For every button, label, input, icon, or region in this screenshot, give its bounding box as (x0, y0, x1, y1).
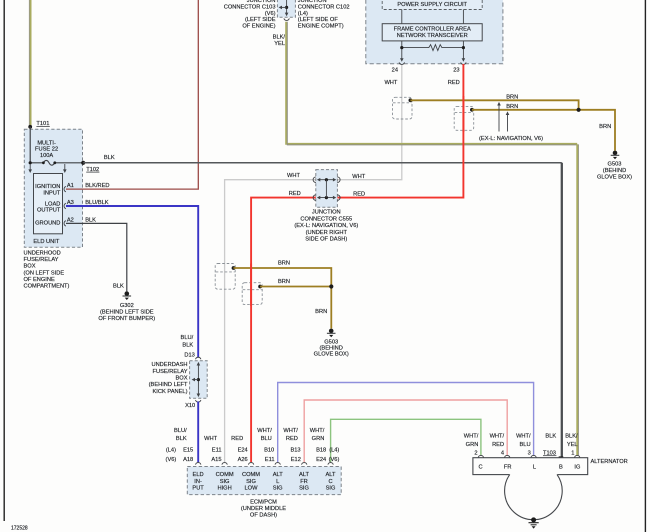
svg-text:BLK: BLK (85, 217, 96, 223)
svg-text:BOX: BOX (24, 264, 36, 270)
svg-text:B13: B13 (290, 447, 300, 453)
svg-text:(V6): (V6) (329, 457, 340, 463)
power supply circuit box (382, 0, 482, 10)
C555 WHT row arrows and node (319, 179, 335, 181)
svg-text:(BEHIND: (BEHIND (603, 168, 626, 174)
svg-text:FR: FR (300, 479, 308, 485)
svg-text:23: 23 (453, 67, 459, 73)
wire BLK from A2 to G302 (66, 223, 127, 291)
svg-text:LOW: LOW (245, 486, 259, 492)
svg-text:(EX-L: NAVIGATION, V6): (EX-L: NAVIGATION, V6) (479, 136, 543, 142)
alternator pin cups (478, 455, 483, 457)
svg-text:OF DASH): OF DASH) (250, 513, 277, 519)
svg-text:(L4): (L4) (329, 447, 339, 453)
svg-text:A15: A15 (211, 457, 221, 463)
svg-text:POWER SUPPLY CIRCUIT: POWER SUPPLY CIRCUIT (397, 2, 467, 8)
svg-text:BLK: BLK (545, 434, 556, 440)
svg-text:B: B (559, 465, 563, 471)
svg-text:BLK: BLK (182, 343, 193, 349)
svg-text:SIG: SIG (299, 486, 309, 492)
svg-text:3: 3 (528, 451, 531, 457)
svg-text:FUSE/RELAY: FUSE/RELAY (153, 369, 188, 375)
svg-text:OUTPUT: OUTPUT (37, 207, 61, 213)
connector shield tap on WHT mid (215, 264, 235, 290)
svg-text:RED: RED (492, 442, 504, 448)
svg-text:KICK PANEL): KICK PANEL) (153, 389, 188, 395)
svg-text:(BEHIND LEFT: (BEHIND LEFT (149, 382, 188, 388)
wire BLU/BLK from A3 (66, 206, 198, 357)
fuse terminal dot left (42, 161, 45, 164)
connector shield tap on RED top (454, 106, 474, 130)
svg-text:G302: G302 (120, 303, 134, 309)
svg-text:A26: A26 (238, 457, 248, 463)
svg-text:UNDERDASH: UNDERDASH (151, 362, 187, 368)
svg-text:WHT/: WHT/ (490, 434, 505, 440)
svg-text:E24: E24 (316, 457, 326, 463)
svg-text:BLK/: BLK/ (273, 35, 286, 41)
arrow into ELD left (29, 164, 31, 170)
node on fuse line (29, 161, 32, 164)
svg-text:YEL: YEL (567, 442, 578, 448)
connector shield tap on WHT top (393, 97, 413, 119)
node T102 (81, 161, 85, 165)
BRN tap node on RED mid (258, 285, 262, 289)
svg-text:CONNECTOR C103: CONNECTOR C103 (224, 4, 276, 10)
wire WHT/BLU ECM to alternator L (278, 383, 534, 463)
svg-text:BLK/RED: BLK/RED (85, 183, 109, 189)
svg-text:BLK: BLK (104, 155, 115, 161)
svg-text:A1: A1 (67, 183, 74, 189)
svg-text:(ON LEFT SIDE: (ON LEFT SIDE (24, 270, 65, 276)
page left border (3, 0, 5, 521)
wire WHT pin24 to ECM (225, 64, 402, 462)
svg-text:100A: 100A (40, 153, 53, 159)
svg-text:ALTERNATOR: ALTERNATOR (591, 459, 628, 465)
svg-text:WHT/: WHT/ (310, 428, 325, 434)
wire BLK/YEL from C102 to alternator IG (286, 22, 578, 455)
svg-text:WHT/: WHT/ (516, 434, 531, 440)
svg-text:WHT: WHT (287, 173, 300, 179)
svg-text:L: L (276, 479, 279, 485)
svg-text:B10: B10 (264, 447, 274, 453)
svg-text:GRN: GRN (312, 436, 325, 442)
svg-text:JUNCTION: JUNCTION (312, 210, 341, 216)
svg-text:SIG: SIG (220, 479, 230, 485)
svg-text:BLK/: BLK/ (565, 434, 578, 440)
pin 23 cup (461, 62, 466, 64)
svg-text:NETWORK TRANSCEIVER: NETWORK TRANSCEIVER (397, 33, 468, 39)
pin A3 cup (64, 203, 66, 208)
svg-text:E11: E11 (212, 447, 222, 453)
svg-text:E15: E15 (183, 447, 193, 453)
wire RED pin23 to ECM (251, 64, 463, 462)
svg-text:BOX: BOX (175, 376, 187, 382)
ECM/PCM box (187, 467, 341, 495)
svg-text:BLU/BLK: BLU/BLK (85, 200, 109, 206)
C555 WHT row cups (313, 177, 316, 183)
svg-text:RED: RED (231, 436, 243, 442)
svg-text:COMPARTMENT): COMPARTMENT) (24, 284, 70, 290)
ground G503 right (611, 151, 620, 160)
wire transceiver to pin 23 (462, 41, 464, 59)
wires power supply to transceiver (401, 10, 403, 24)
wire BLK T101 to fuse (29, 127, 31, 163)
junction connector C103/C102 box (277, 0, 295, 17)
svg-text:SIG: SIG (273, 486, 283, 492)
svg-text:SIG: SIG (246, 479, 256, 485)
svg-text:FUSE 22: FUSE 22 (35, 147, 58, 153)
node BRN join (577, 108, 581, 112)
svg-text:GRN: GRN (466, 442, 479, 448)
svg-text:RED: RED (286, 436, 298, 442)
svg-text:(UNDER RIGHT: (UNDER RIGHT (306, 230, 348, 236)
svg-text:BLU/: BLU/ (181, 335, 194, 341)
node left of resistor (400, 46, 403, 49)
svg-text:2: 2 (474, 451, 477, 457)
wire RED overlay at mid crossing (250, 264, 252, 307)
ground G302 (123, 291, 132, 300)
C555 RED row arrows and node (319, 197, 335, 199)
pin A2 cup (64, 221, 66, 226)
node T103 square (559, 456, 564, 460)
C555 RED row cups (313, 195, 316, 201)
svg-text:BLU: BLU (261, 436, 272, 442)
svg-text:COMM: COMM (216, 472, 234, 478)
svg-text:SIDE OF DASH): SIDE OF DASH) (305, 237, 347, 243)
pin 24 cup (399, 62, 404, 64)
ECM pin cups (196, 463, 201, 465)
svg-text:BRN: BRN (599, 124, 611, 130)
svg-text:BRN: BRN (506, 104, 518, 110)
wire BLK T102 to alternator B (83, 162, 562, 164)
terminating resistor (402, 45, 464, 51)
svg-text:BRN: BRN (506, 94, 518, 100)
svg-text:A18: A18 (183, 457, 193, 463)
node BRN mid join (329, 284, 333, 288)
svg-text:24: 24 (392, 67, 398, 73)
svg-text:CONNECTOR C102: CONNECTOR C102 (298, 4, 350, 10)
pin A1 cup (64, 186, 66, 191)
wire RED overlay at top crossing (462, 96, 464, 132)
svg-text:WHT/: WHT/ (257, 428, 272, 434)
alternator case ground (529, 517, 539, 528)
svg-text:G503: G503 (608, 161, 622, 167)
wire BLU/BLK X10 to ECM (197, 401, 199, 462)
svg-text:COMM: COMM (242, 472, 260, 478)
svg-text:OF ENGINE): OF ENGINE) (242, 24, 275, 30)
svg-text:YEL: YEL (274, 41, 285, 47)
svg-text:C: C (479, 465, 483, 471)
svg-text:A2: A2 (67, 217, 74, 223)
svg-text:(BEHIND LEFT SIDE: (BEHIND LEFT SIDE (100, 310, 154, 316)
svg-text:PUT: PUT (192, 486, 204, 492)
svg-text:RED: RED (448, 80, 460, 86)
svg-text:WHT/: WHT/ (283, 428, 298, 434)
BRN tap node on WHT mid (232, 266, 236, 270)
svg-text:WHT: WHT (384, 80, 397, 86)
fuse terminal dot right (53, 161, 56, 164)
node right of resistor (462, 46, 465, 49)
svg-text:FR: FR (504, 465, 512, 471)
svg-text:GLOVE BOX): GLOVE BOX) (597, 174, 632, 180)
ground G503 middle (327, 329, 336, 338)
svg-text:ALT: ALT (325, 472, 336, 478)
BRN tap node on WHT connector (409, 98, 413, 102)
svg-text:(V6): (V6) (166, 457, 177, 463)
svg-text:GLOVE BOX): GLOVE BOX) (314, 351, 349, 357)
svg-text:E11: E11 (265, 457, 275, 463)
svg-text:G503: G503 (324, 339, 338, 345)
wire BLK/YEL from top to T101 (29, 0, 30, 127)
node T101 (28, 125, 32, 129)
svg-text:BLU/: BLU/ (174, 428, 187, 434)
svg-text:BLK: BLK (176, 436, 187, 442)
svg-text:ALT: ALT (299, 472, 310, 478)
svg-text:E24: E24 (238, 447, 248, 453)
power supply outer dashed box (366, 0, 503, 64)
svg-text:172528: 172528 (11, 526, 28, 532)
svg-text:B18: B18 (316, 447, 326, 453)
svg-text:(L4): (L4) (166, 447, 176, 453)
svg-text:IN-: IN- (194, 479, 202, 485)
svg-text:WHT: WHT (204, 436, 217, 442)
svg-text:BRN: BRN (278, 261, 290, 267)
connector shield tap on RED mid (242, 283, 262, 305)
fuse 22 symbol (30, 160, 83, 165)
svg-text:RED: RED (289, 191, 301, 197)
C103/C102 internal bus (286, 0, 288, 14)
svg-text:ECM/PCM: ECM/PCM (250, 499, 277, 505)
alternator body circle (505, 474, 563, 519)
svg-text:ALT: ALT (273, 472, 284, 478)
wire BRN upper to G503 (410, 100, 578, 110)
svg-text:(UNDER MIDDLE: (UNDER MIDDLE (241, 506, 286, 512)
svg-text:MULTI-: MULTI- (37, 140, 56, 146)
svg-text:UNDERHOOD: UNDERHOOD (24, 251, 61, 257)
svg-text:IGNITION: IGNITION (35, 184, 60, 190)
svg-text:IG: IG (574, 465, 580, 471)
wire transceiver to pin 24 (401, 41, 403, 59)
ex-l navigation arrows (498, 105, 500, 132)
X10 cup (196, 400, 201, 402)
D13 cup (196, 357, 201, 359)
svg-text:D13: D13 (184, 353, 194, 359)
arrow into ELD right (64, 164, 66, 170)
underhood fuse/relay box (24, 129, 82, 247)
wire BRN lower to G503 (472, 110, 615, 151)
page right border (644, 0, 646, 532)
C103/C102 exit cup (284, 18, 289, 20)
BRN tap node on RED connector (470, 108, 474, 112)
svg-text:(LEFT SIDE: (LEFT SIDE (245, 17, 276, 23)
svg-text:HIGH: HIGH (217, 486, 231, 492)
svg-text:L: L (533, 465, 536, 471)
svg-text:FRAME CONTROLLER AREA: FRAME CONTROLLER AREA (394, 27, 471, 33)
svg-text:ELD UNIT: ELD UNIT (33, 239, 59, 245)
svg-text:INPUT: INPUT (43, 190, 61, 196)
svg-text:ELD: ELD (193, 472, 204, 478)
svg-text:GROUND: GROUND (35, 221, 60, 227)
svg-text:E12: E12 (291, 457, 301, 463)
svg-text:WHT: WHT (352, 174, 365, 180)
svg-text:OF FRONT BUMPER): OF FRONT BUMPER) (98, 316, 155, 322)
svg-text:(LEFT SIDE OF: (LEFT SIDE OF (298, 17, 339, 23)
ELD unit inner box (34, 174, 63, 234)
svg-text:(L4): (L4) (298, 11, 308, 17)
wire WHT/GRN ECM to alternator C (331, 419, 481, 462)
frame controller area network transceiver box (382, 24, 482, 41)
svg-text:RED: RED (353, 192, 365, 198)
svg-text:BLK: BLK (113, 284, 124, 290)
svg-text:X10: X10 (185, 403, 195, 409)
underdash internal bus (197, 365, 199, 395)
svg-text:SIG: SIG (326, 486, 336, 492)
wire BLK/RED from A1 up to top (66, 0, 198, 189)
svg-text:FUSE/RELAY: FUSE/RELAY (24, 257, 59, 263)
svg-text:BRN: BRN (315, 309, 327, 315)
svg-text:4: 4 (501, 451, 504, 457)
wire BRN mid lower to G503 (260, 287, 331, 329)
svg-text:1: 1 (571, 451, 574, 457)
svg-text:OF ENGINE: OF ENGINE (24, 277, 55, 283)
svg-text:ENGINE COMPT): ENGINE COMPT) (298, 24, 344, 30)
svg-text:CONNECTOR C555: CONNECTOR C555 (300, 216, 352, 222)
wire WHT/RED ECM to alternator FR (304, 400, 507, 462)
underdash fuse/relay box (190, 361, 208, 399)
svg-text:(V6): (V6) (265, 11, 276, 17)
svg-text:(EX-L: NAVIGATION, V6): (EX-L: NAVIGATION, V6) (294, 223, 358, 229)
svg-text:BRN: BRN (278, 279, 290, 285)
svg-text:C: C (328, 479, 332, 485)
C555 internal bus (325, 180, 327, 198)
svg-text:WHT/: WHT/ (464, 434, 479, 440)
alternator box (473, 458, 588, 475)
wire BRN mid upper (234, 268, 332, 287)
junction connector C555 box (316, 170, 338, 208)
svg-text:BLU: BLU (520, 442, 531, 448)
